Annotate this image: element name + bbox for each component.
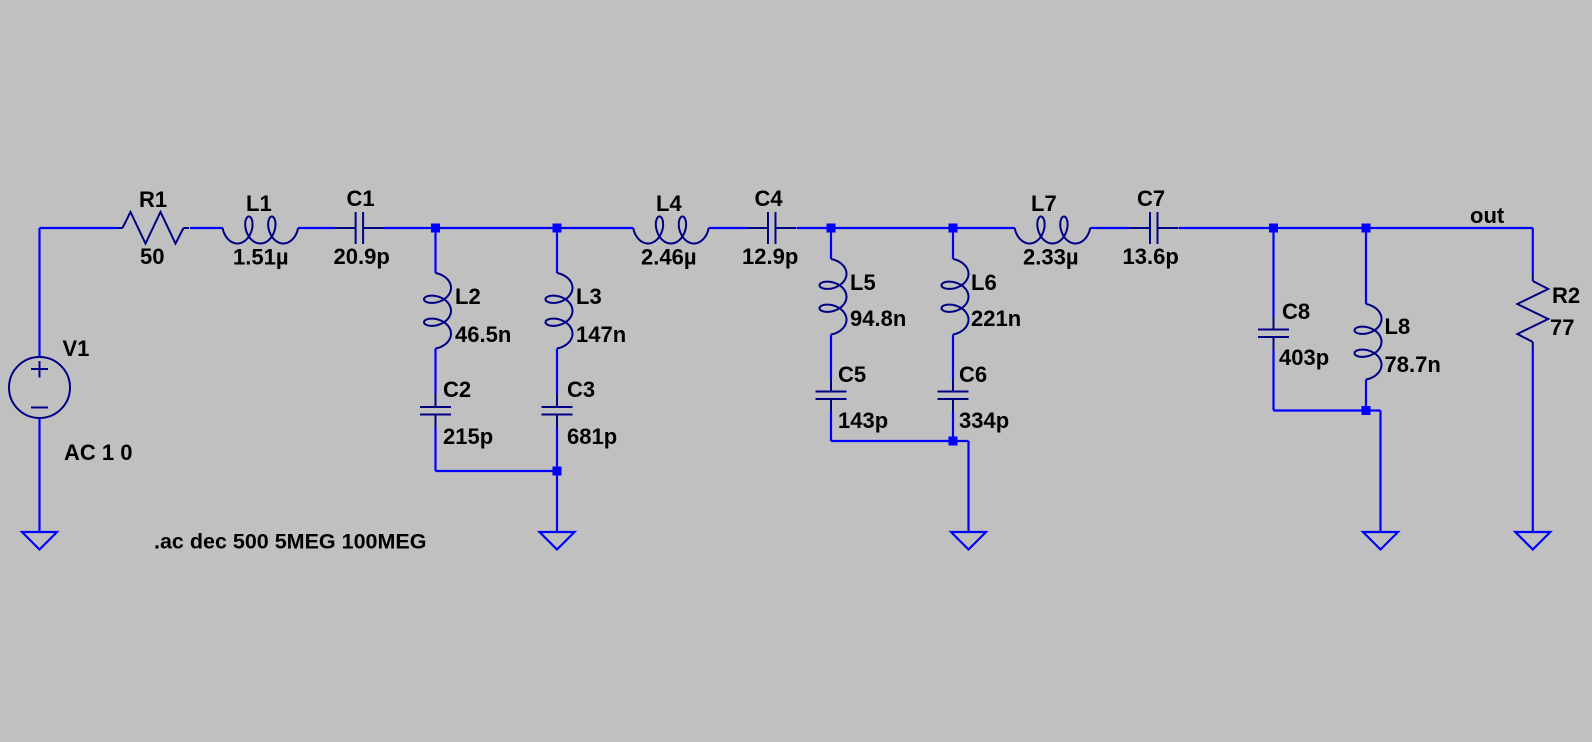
svg-text:L4: L4 <box>656 191 682 216</box>
svg-text:20.9p: 20.9p <box>334 244 390 269</box>
svg-text:50: 50 <box>140 244 164 269</box>
svg-text:C5: C5 <box>838 362 866 387</box>
svg-text:2.46µ: 2.46µ <box>641 245 697 270</box>
svg-text:C6: C6 <box>959 362 987 387</box>
svg-text:681p: 681p <box>567 424 617 449</box>
svg-text:94.8n: 94.8n <box>850 306 906 331</box>
svg-text:77: 77 <box>1550 315 1574 340</box>
svg-text:C3: C3 <box>567 377 595 402</box>
svg-text:L7: L7 <box>1031 191 1057 216</box>
svg-text:334p: 334p <box>959 408 1009 433</box>
svg-text:R2: R2 <box>1552 283 1580 308</box>
svg-text:L2: L2 <box>455 284 481 309</box>
svg-text:221n: 221n <box>971 306 1021 331</box>
svg-text:12.9p: 12.9p <box>742 244 798 269</box>
svg-text:C2: C2 <box>443 377 471 402</box>
svg-text:403p: 403p <box>1279 345 1329 370</box>
svg-text:L8: L8 <box>1385 314 1411 339</box>
svg-text:C1: C1 <box>347 186 375 211</box>
svg-text:C4: C4 <box>755 186 784 211</box>
svg-text:out: out <box>1470 203 1505 228</box>
svg-text:1.51µ: 1.51µ <box>233 245 289 270</box>
svg-text:215p: 215p <box>443 424 493 449</box>
svg-text:143p: 143p <box>838 408 888 433</box>
svg-text:AC 1 0: AC 1 0 <box>64 440 132 465</box>
svg-text:78.7n: 78.7n <box>1385 352 1441 377</box>
svg-text:C7: C7 <box>1137 186 1165 211</box>
svg-text:V1: V1 <box>63 336 90 361</box>
svg-text:L6: L6 <box>971 270 997 295</box>
svg-text:L5: L5 <box>850 270 876 295</box>
svg-text:13.6p: 13.6p <box>1123 244 1179 269</box>
svg-text:C8: C8 <box>1282 299 1310 324</box>
svg-text:R1: R1 <box>139 187 167 212</box>
svg-text:L1: L1 <box>246 191 272 216</box>
svg-text:46.5n: 46.5n <box>455 322 511 347</box>
svg-text:147n: 147n <box>576 322 626 347</box>
svg-text:.ac dec 500 5MEG 100MEG: .ac dec 500 5MEG 100MEG <box>154 530 426 554</box>
svg-text:L3: L3 <box>576 284 602 309</box>
svg-text:2.33µ: 2.33µ <box>1023 245 1079 270</box>
